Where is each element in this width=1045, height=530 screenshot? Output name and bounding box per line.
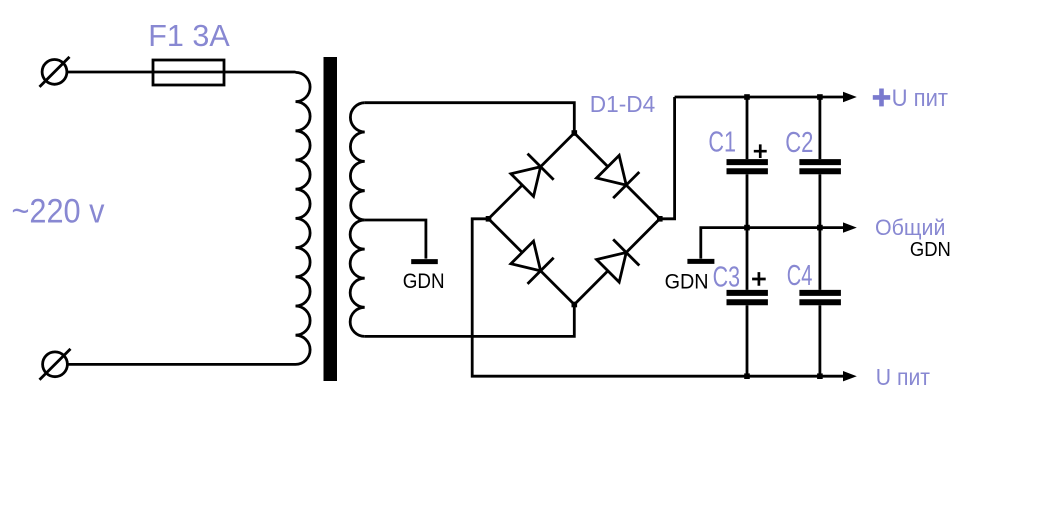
transformer T1 primary winding xyxy=(296,72,311,364)
bridge edge wire left-top xyxy=(489,133,575,219)
junction node bridge top xyxy=(572,130,578,136)
arrow of common output xyxy=(843,222,857,232)
junction node C1 top xyxy=(744,94,750,100)
svg-text:GDN: GDN xyxy=(403,269,445,293)
svg-text:U пит: U пит xyxy=(892,85,948,112)
junction node C2 top xyxy=(817,94,823,100)
capacitor C4 plates xyxy=(799,293,841,302)
svg-text:C2: C2 xyxy=(785,127,813,159)
capacitor C2 plates xyxy=(799,162,841,171)
input terminal XS2 (bottom) xyxy=(40,349,71,380)
svg-text:C4: C4 xyxy=(787,260,813,292)
junction node C1/C3 middle xyxy=(744,225,750,231)
bridge edge wire top-right xyxy=(574,133,660,219)
svg-text:GDN: GDN xyxy=(665,270,709,294)
junction node bridge right xyxy=(657,216,663,222)
fuse F1 xyxy=(153,60,224,85)
diode D2 (top-right) xyxy=(597,155,640,198)
arrow of -U output xyxy=(843,371,857,381)
svg-text:U пит: U пит xyxy=(876,364,931,390)
svg-text:GDN: GDN xyxy=(910,238,951,261)
capacitor C3 plates xyxy=(727,293,768,302)
ground bar at transformer center tap xyxy=(411,259,438,264)
wire secondary top to bridge top node xyxy=(365,103,575,133)
diode D3 (left-bottom) xyxy=(511,241,554,284)
transformer core xyxy=(324,57,338,381)
diode D4 (bottom-right) xyxy=(597,239,640,282)
junction node bridge bottom xyxy=(572,302,578,308)
junction node C2/C4 middle xyxy=(817,225,823,231)
+U output rail xyxy=(675,96,844,99)
ground bar at common rail xyxy=(687,259,714,264)
junction node bridge left xyxy=(486,216,492,222)
svg-text:D1-D4: D1-D4 xyxy=(590,91,655,117)
wire bridge left node down to -U rail and -U output rail xyxy=(472,219,843,376)
svg-text:F1 3A: F1 3A xyxy=(148,18,230,53)
svg-text:C3: C3 xyxy=(713,262,740,294)
junction node C4 bottom xyxy=(817,373,823,379)
capacitor column C2/C4 vertical wires xyxy=(819,97,822,376)
wire bridge right node to +U rail xyxy=(660,97,675,219)
junction node C3 bottom xyxy=(744,373,750,379)
polarity plus of C1 xyxy=(754,144,767,158)
svg-text:~220 v: ~220 v xyxy=(12,193,105,231)
bridge edge wire left-bottom xyxy=(489,219,575,305)
transformer secondary winding lower half xyxy=(350,220,365,336)
input terminal XS1 (top) xyxy=(40,57,70,87)
svg-text:Общий: Общий xyxy=(875,215,945,240)
capacitor C1 plates xyxy=(727,162,768,171)
transformer secondary winding upper half xyxy=(350,103,364,220)
wire from XS1 to primary winding (through fuse) xyxy=(66,71,296,74)
diode D1 (left-top) xyxy=(511,154,554,197)
polarity plus of C3 xyxy=(752,272,766,286)
arrow of +U output xyxy=(843,92,857,102)
plus sign of +U output label xyxy=(873,89,890,107)
wire secondary bottom to bridge bottom node xyxy=(365,305,575,337)
svg-text:C1: C1 xyxy=(708,127,736,159)
bridge edge wire bottom-right xyxy=(574,219,660,305)
wire center tap to ground xyxy=(365,220,426,259)
common rail from ground stub xyxy=(701,228,844,259)
wire from XS2 to primary winding bottom xyxy=(67,363,296,366)
capacitor column C1/C3 vertical wires xyxy=(746,97,749,376)
